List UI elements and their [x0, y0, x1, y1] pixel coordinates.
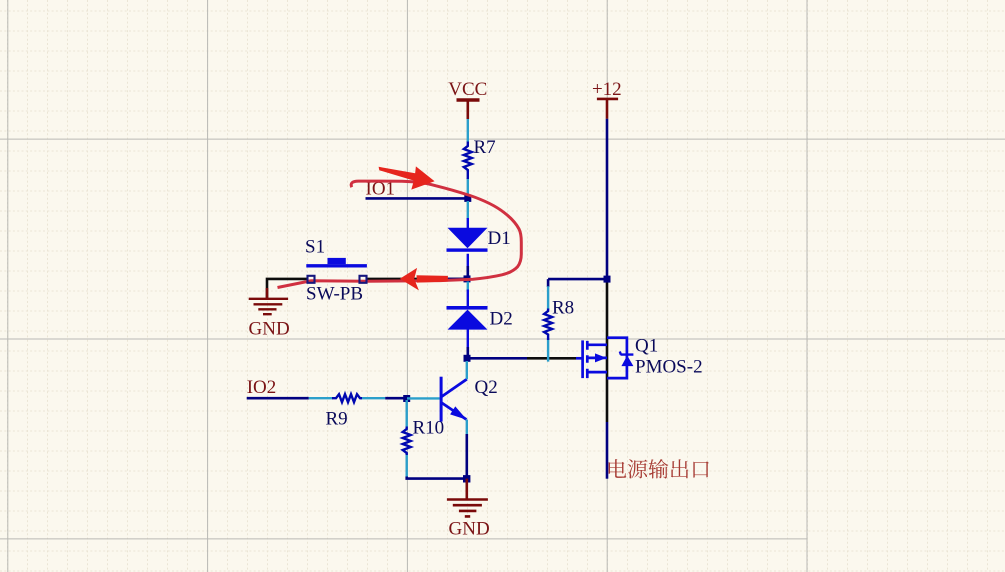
switch S1 actuator	[328, 258, 346, 264]
diode D1	[448, 228, 488, 248]
ground GND bottom bars	[447, 500, 488, 517]
transistor Q2 emitter arrow	[450, 406, 467, 419]
annotation arrow right (top)	[379, 167, 418, 181]
text 电源输出口	[609, 459, 709, 479]
wire emitter to GND node	[465, 434, 468, 479]
resistor R10 pins	[406, 400, 408, 477]
drain stub	[587, 343, 607, 346]
power +12 stub	[606, 99, 609, 119]
svg-text:Q2: Q2	[475, 377, 498, 398]
resistor R10	[403, 427, 411, 456]
wire D2 to gate node	[466, 347, 469, 358]
wire GND-left to switch (black)	[267, 279, 308, 298]
bulk stub	[587, 357, 607, 360]
svg-text:Q1: Q1	[635, 336, 658, 357]
ground GND left bars	[249, 299, 288, 314]
power VCC stub	[466, 100, 469, 119]
transistor Q2 base pin	[407, 397, 440, 399]
svg-text:IO2: IO2	[247, 377, 277, 398]
wire R9 to base node	[385, 397, 407, 400]
ground GND bottom stub	[465, 479, 468, 499]
wire D1 to switch node	[466, 266, 469, 279]
svg-text:R9: R9	[326, 408, 348, 429]
diode D2 pins	[467, 282, 469, 292]
svg-text:GND: GND	[249, 319, 290, 340]
svg-text:D1: D1	[488, 228, 511, 249]
wire +12 rail navy	[606, 119, 609, 279]
resistor R7	[464, 142, 472, 180]
resistor R8 top wire	[548, 279, 607, 287]
junction base node	[403, 395, 410, 402]
ground GND left stub	[266, 288, 269, 298]
wire IO2	[247, 397, 309, 400]
svg-text:+12: +12	[592, 79, 622, 100]
junction switch row	[464, 275, 471, 282]
emitter diagonal	[442, 403, 467, 420]
collector diagonal	[442, 379, 467, 396]
junction R8/+12	[604, 276, 611, 283]
resistor R9 pins	[309, 397, 385, 399]
svg-text:VCC: VCC	[448, 79, 487, 100]
junction IO1/R7	[464, 195, 471, 202]
svg-text:SW-PB: SW-PB	[306, 283, 363, 304]
wire +12 rail black through Q1	[606, 279, 609, 422]
junction gate node	[464, 355, 471, 362]
power VCC bar	[457, 98, 480, 101]
source stub	[587, 371, 607, 374]
annotation arrow left (bottom)	[417, 275, 448, 282]
wire IO1	[366, 197, 468, 200]
wire gate node to R8 (navy)	[467, 357, 527, 360]
svg-text:D2: D2	[490, 308, 513, 329]
channel segments	[586, 341, 589, 378]
wire output navy	[606, 422, 609, 479]
junction emitter/R10/GND	[463, 475, 470, 482]
transistor Q2	[441, 377, 467, 422]
wire gate black segment	[527, 357, 576, 360]
wire R10 bottom to emitter node	[407, 477, 467, 479]
svg-text:R7: R7	[474, 137, 496, 158]
gate bar	[581, 340, 584, 378]
svg-text:R10: R10	[413, 418, 445, 439]
gate pin	[576, 357, 583, 360]
base bar	[440, 377, 443, 422]
resistor R7 pins	[467, 119, 469, 197]
resistor R9	[332, 394, 362, 402]
annotation red curve	[278, 181, 522, 287]
diode D1 pins	[467, 201, 469, 277]
diode D2	[447, 306, 488, 310]
body diode cathode bar	[620, 352, 634, 355]
body diode triangle	[621, 356, 633, 367]
power +12 bar	[597, 98, 618, 101]
resistor R8 pins	[547, 286, 549, 361]
switch S1 pin squares	[308, 276, 315, 283]
mosfet Q1 arrow	[595, 353, 607, 362]
Q2 collector pin	[466, 361, 468, 379]
wire switch to junction	[366, 278, 467, 281]
mosfet Q1	[576, 338, 627, 378]
svg-text:S1: S1	[305, 236, 325, 257]
svg-text:GND: GND	[449, 518, 490, 539]
resistor R8	[544, 309, 552, 341]
svg-text:R8: R8	[552, 297, 574, 318]
switch S1 bar	[306, 264, 367, 267]
Q2 emitter pin	[466, 420, 468, 435]
svg-text:PMOS-2: PMOS-2	[635, 357, 703, 378]
body diode loop	[607, 338, 627, 378]
